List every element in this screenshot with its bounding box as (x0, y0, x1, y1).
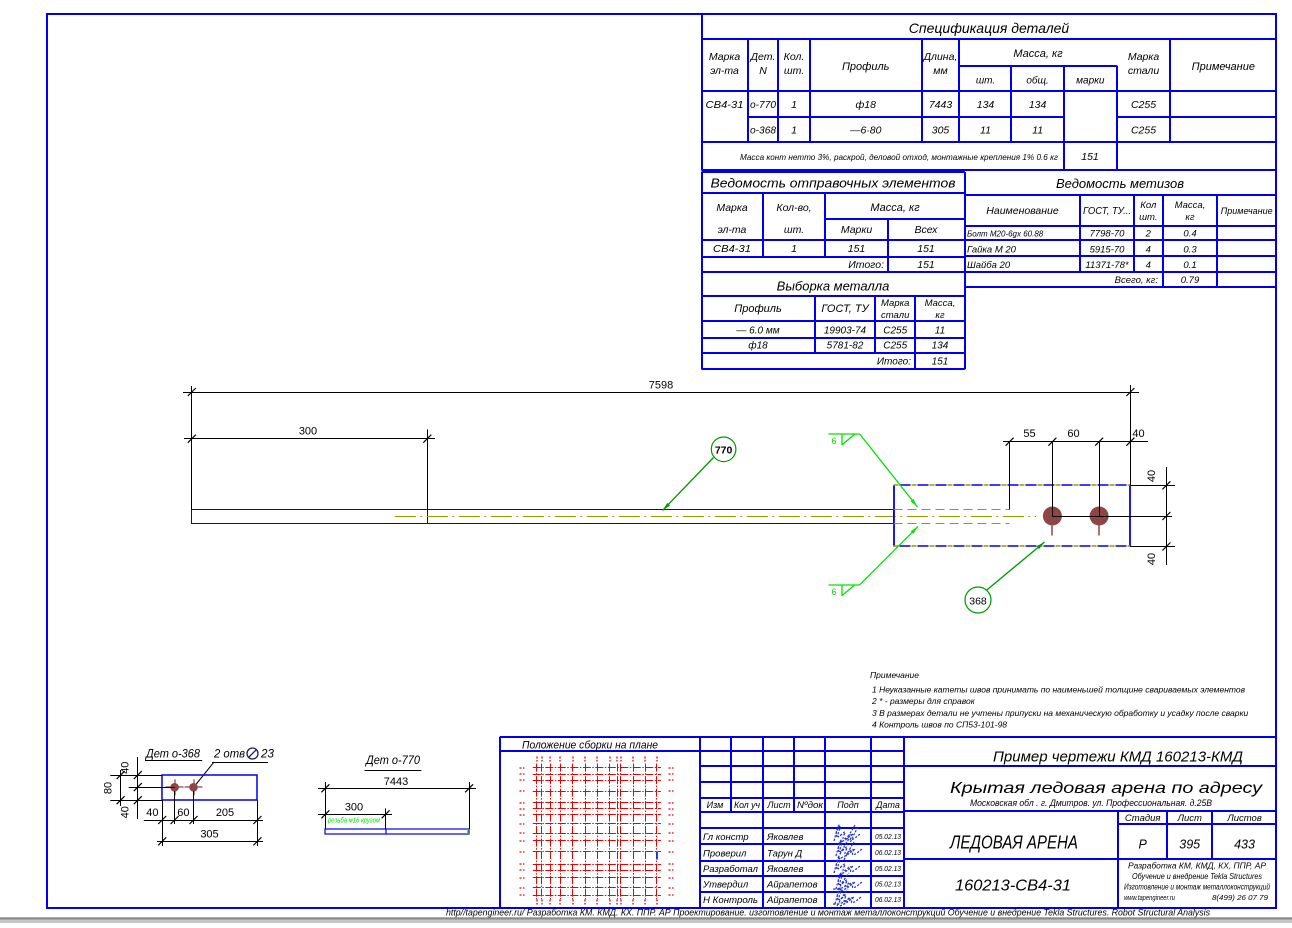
svg-text:134: 134 (932, 341, 949, 352)
svg-text:ГОСТ, ТУ...: ГОСТ, ТУ... (1083, 205, 1131, 217)
svg-text:Утвердил: Утвердил (702, 880, 749, 891)
svg-text:общ.: общ. (1026, 75, 1048, 87)
svg-text:кг: кг (935, 310, 944, 321)
svg-text:Лист: Лист (1176, 813, 1202, 824)
svg-text:Крытая ледовая арена по адресу: Крытая ледовая арена по адресу (950, 780, 1263, 797)
svg-text:шт.: шт. (1139, 212, 1157, 223)
svg-text:433: 433 (1234, 838, 1255, 852)
svg-text:Марка: Марка (1128, 51, 1160, 63)
svg-text:Болт М20-6gх 60.88: Болт М20-6gх 60.88 (967, 230, 1044, 239)
svg-text:шт.: шт. (976, 76, 995, 87)
svg-text:Марки: Марки (841, 224, 873, 236)
svg-text:8(499) 26 07 79: 8(499) 26 07 79 (1212, 893, 1269, 902)
svg-text:мм: мм (933, 65, 947, 77)
svg-text:шт.: шт. (784, 65, 804, 77)
svg-text:1: 1 (791, 125, 797, 137)
svg-text:С255: С255 (883, 326, 907, 337)
svg-text:300: 300 (299, 426, 317, 438)
svg-text:60: 60 (1067, 428, 1079, 440)
svg-text:160213-СВ4-31: 160213-СВ4-31 (955, 878, 1071, 895)
svg-text:шт.: шт. (784, 224, 804, 236)
svg-text:305: 305 (932, 125, 950, 137)
svg-text:7443: 7443 (384, 776, 408, 788)
svg-text:www.tapengineer.ru: www.tapengineer.ru (1124, 893, 1176, 902)
svg-text:ГОСТ, ТУ: ГОСТ, ТУ (821, 303, 869, 315)
svg-text:Стадия: Стадия (1125, 813, 1161, 824)
svg-text:5915-70: 5915-70 (1090, 244, 1126, 255)
svg-text:05.02.13: 05.02.13 (875, 834, 901, 841)
svg-text:Н Контроль: Н Контроль (703, 895, 758, 906)
svg-text:0.3: 0.3 (1183, 244, 1197, 255)
svg-text:Положение сборки на плане: Положение сборки на плане (522, 740, 658, 752)
svg-text:40: 40 (1132, 428, 1144, 440)
svg-text:1: 1 (791, 99, 797, 111)
svg-text:Масса,: Масса, (925, 298, 956, 309)
svg-text:205: 205 (216, 807, 234, 819)
svg-text:Профиль: Профиль (842, 61, 890, 73)
svg-text:Проверил: Проверил (703, 848, 747, 859)
svg-text:55: 55 (1023, 428, 1035, 440)
svg-text:Масса, кг: Масса, кг (1013, 48, 1063, 60)
svg-text:Ведомость отправочных элементо: Ведомость отправочных элементов (711, 176, 956, 191)
svg-text:Всех: Всех (915, 224, 939, 236)
svg-text:кг: кг (1185, 212, 1194, 223)
svg-text:4 Контроль швов по СП53-101-9: 4 Контроль швов по СП53-101-98 (872, 720, 1007, 730)
svg-text:2 отв: 2 отв (213, 747, 245, 761)
svg-text:6: 6 (831, 587, 836, 597)
svg-text:Айрапетов: Айрапетов (766, 880, 818, 891)
svg-text:С255: С255 (1131, 99, 1156, 111)
svg-text:Кол.: Кол. (784, 51, 805, 63)
svg-text:Обучение и внедрение Tekla S: Обучение и внедрение Tekla Structures (1132, 872, 1262, 881)
svg-text:40: 40 (1146, 553, 1158, 565)
svg-text:стали: стали (881, 310, 910, 321)
svg-text:Всего, кг:: Всего, кг: (1115, 275, 1159, 286)
svg-text:Масса,: Масса, (1175, 200, 1206, 211)
svg-text:2 * - размеры для справок: 2 * - размеры для справок (871, 696, 976, 706)
svg-text:23: 23 (260, 747, 274, 761)
svg-text:Кол-во,: Кол-во, (776, 202, 811, 214)
svg-text:Дет.: Дет. (750, 51, 776, 63)
svg-text:Изм: Изм (707, 800, 724, 810)
svg-text:305: 305 (200, 829, 218, 841)
svg-text:7798-70: 7798-70 (1090, 229, 1126, 240)
svg-text:06.02.13: 06.02.13 (875, 850, 901, 857)
svg-text:151: 151 (848, 243, 866, 255)
svg-text:Подп: Подп (837, 800, 859, 810)
svg-text:—6·80: —6·80 (849, 125, 882, 137)
svg-text:40: 40 (120, 806, 132, 818)
svg-text:о-770: о-770 (750, 99, 776, 111)
svg-text:11: 11 (1032, 125, 1043, 137)
svg-text:Р: Р (1139, 838, 1148, 852)
svg-text:395: 395 (1179, 838, 1200, 852)
svg-text:134: 134 (977, 99, 995, 111)
svg-text:ф18: ф18 (855, 99, 876, 111)
svg-text:4: 4 (1146, 260, 1151, 271)
svg-text:Спецификация деталей: Спецификация деталей (909, 20, 1070, 36)
svg-text:Длина,: Длина, (923, 51, 958, 63)
svg-text:2: 2 (1145, 229, 1152, 240)
svg-text:СВ4-31: СВ4-31 (713, 243, 751, 255)
svg-text:— 6.0 мм: — 6.0 мм (735, 326, 779, 337)
svg-text:Марка: Марка (716, 202, 748, 214)
svg-text:о-368: о-368 (750, 125, 776, 137)
svg-text:151: 151 (917, 243, 935, 255)
svg-text:60: 60 (177, 807, 189, 819)
svg-text:Nºдок: Nºдок (797, 800, 824, 810)
svg-text:Выборка металла: Выборка металла (777, 279, 890, 294)
svg-text:Примечание: Примечание (1192, 61, 1255, 73)
svg-text:5781-82: 5781-82 (827, 341, 864, 352)
svg-text:6: 6 (831, 436, 836, 446)
svg-text:11371-78*: 11371-78* (1085, 260, 1128, 271)
svg-text:Масса, кг: Масса, кг (870, 202, 920, 214)
svg-text:резьба м16 кругом: резьба м16 кругом (327, 816, 380, 825)
svg-text:134: 134 (1029, 99, 1047, 111)
svg-text:7443: 7443 (929, 99, 953, 111)
svg-text:Профиль: Профиль (734, 303, 782, 315)
svg-text:Кол: Кол (1140, 200, 1157, 211)
svg-text:Дет о-770: Дет о-770 (364, 753, 420, 767)
svg-text:Итого:: Итого: (848, 259, 884, 271)
svg-text:151: 151 (932, 357, 949, 368)
svg-text:стали: стали (1128, 65, 1160, 77)
svg-text:368: 368 (969, 596, 987, 608)
svg-text:эл-та: эл-та (718, 224, 747, 236)
svg-text:Примечание: Примечание (870, 670, 919, 680)
svg-text:3 В размерах детали не учтены: 3 В размерах детали не учтены припуски н… (872, 708, 1248, 718)
svg-text:эл-та: эл-та (710, 65, 739, 77)
svg-text:СВ4-31: СВ4-31 (706, 99, 744, 111)
svg-text:ф18: ф18 (748, 340, 768, 352)
svg-text:1: 1 (791, 243, 797, 255)
svg-text:Пример чертежи КМД 160213-КМ: Пример чертежи КМД 160213-КМД (993, 750, 1243, 766)
svg-text:Дата: Дата (875, 800, 900, 810)
svg-text:С255: С255 (1131, 125, 1156, 137)
svg-text:151: 151 (1081, 151, 1099, 163)
svg-text:151: 151 (917, 259, 935, 271)
svg-text:1 Неуказанные катеты швов при: 1 Неуказанные катеты швов принимать по н… (872, 685, 1246, 695)
svg-text:11: 11 (935, 326, 945, 337)
svg-text:Итого:: Итого: (877, 357, 911, 368)
svg-text:С255: С255 (883, 341, 907, 352)
svg-text:Айрапетов: Айрапетов (766, 895, 818, 906)
svg-text:0.79: 0.79 (1181, 275, 1200, 286)
svg-text:Шайба 20: Шайба 20 (967, 260, 1011, 271)
svg-text:40: 40 (120, 762, 132, 774)
svg-text:Разработка КМ, КМД, КХ, ППР, А: Разработка КМ, КМД, КХ, ППР, АР (1128, 861, 1266, 871)
svg-text:Дет о-368: Дет о-368 (144, 747, 200, 761)
svg-text:Изготовление и монтаж металлок: Изготовление и монтаж металлоконструкций (1124, 883, 1270, 892)
svg-text:40: 40 (1146, 470, 1158, 482)
svg-text:марки: марки (1076, 76, 1105, 87)
svg-text:80: 80 (103, 782, 115, 794)
svg-text:Гайка М 20: Гайка М 20 (967, 244, 1017, 255)
svg-text:Лист: Лист (766, 800, 791, 810)
svg-text:ЛЕДОВАЯ АРЕНА: ЛЕДОВАЯ АРЕНА (949, 832, 1078, 853)
svg-text:0.4: 0.4 (1183, 229, 1196, 240)
svg-text:Марка: Марка (709, 51, 741, 63)
svg-text:Ведомость метизов: Ведомость метизов (1056, 176, 1184, 191)
svg-text:http//tapengineer.ru/ Разраб: http//tapengineer.ru/ Разработка КМ. КМД… (446, 908, 1210, 919)
svg-text:Яковлев: Яковлев (766, 832, 804, 843)
svg-text:19903-74: 19903-74 (824, 326, 867, 337)
svg-text:Яковлев: Яковлев (766, 864, 804, 875)
svg-text:7598: 7598 (649, 380, 673, 392)
svg-text:4: 4 (1146, 244, 1151, 255)
svg-text:06.02.13: 06.02.13 (875, 897, 901, 904)
svg-text:05.02.13: 05.02.13 (875, 866, 901, 873)
svg-text:Кол уч: Кол уч (734, 800, 760, 810)
svg-text:Листов: Листов (1226, 813, 1262, 824)
svg-text:0.1: 0.1 (1183, 260, 1196, 271)
svg-text:05.02.13: 05.02.13 (875, 881, 901, 888)
svg-text:770: 770 (715, 445, 733, 457)
svg-text:Наименование: Наименование (986, 205, 1059, 217)
svg-text:N: N (759, 65, 767, 77)
svg-text:Примечание: Примечание (1221, 206, 1273, 216)
svg-text:Тарун Д: Тарун Д (767, 848, 802, 859)
svg-text:11: 11 (980, 125, 991, 137)
svg-text:Гл констр: Гл констр (703, 832, 749, 843)
svg-text:40: 40 (146, 807, 158, 819)
svg-text:Масса конт нетто 3%, раскрой,: Масса конт нетто 3%, раскрой, деловой от… (740, 152, 1058, 162)
svg-text:Марка: Марка (881, 298, 909, 309)
svg-text:Московская обл . г. Дмитров. у: Московская обл . г. Дмитров. ул. Професс… (970, 798, 1212, 808)
svg-text:Разработал: Разработал (703, 864, 759, 875)
svg-text:300: 300 (345, 802, 363, 814)
